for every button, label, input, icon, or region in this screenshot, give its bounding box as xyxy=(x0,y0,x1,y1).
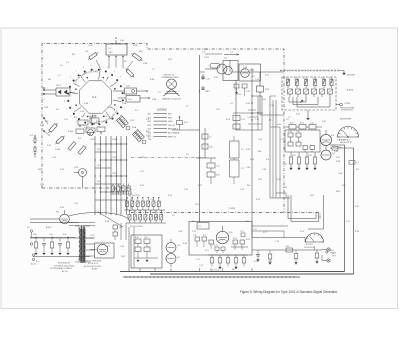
svg-text:R-73: R-73 xyxy=(214,245,218,247)
attenuator output terminal xyxy=(336,102,355,112)
buffer cathode parts xyxy=(234,84,247,96)
svg-text:S-2: S-2 xyxy=(36,261,39,263)
svg-text:C-7: C-7 xyxy=(152,69,155,71)
attenuator resistor bank row 1 xyxy=(285,77,333,88)
svg-text:9: 9 xyxy=(91,65,92,67)
svg-text:4: 4 xyxy=(64,92,65,94)
svg-text:C-71: C-71 xyxy=(196,259,200,261)
svg-text:P-2: P-2 xyxy=(356,163,359,165)
svg-text:R-42: R-42 xyxy=(300,123,304,125)
svg-text:J-3: J-3 xyxy=(286,119,289,121)
svg-text:C-33: C-33 xyxy=(241,119,245,121)
center column extra wires xyxy=(233,95,263,130)
svg-text:V-9: V-9 xyxy=(177,257,180,259)
left small bank row xyxy=(111,184,131,195)
trimmer C-3 right of switch (tilted) xyxy=(125,68,136,79)
svg-text:CPS INTERNAL CONNECT: CPS INTERNAL CONNECT xyxy=(50,267,73,270)
output amp bottom components xyxy=(208,255,248,272)
svg-text:R-6: R-6 xyxy=(56,109,59,111)
svg-text:6: 6 xyxy=(99,127,100,129)
modulation system note xyxy=(50,262,74,273)
svg-text:P-3: P-3 xyxy=(27,227,30,229)
svg-text:AL-770: AL-770 xyxy=(62,270,68,273)
svg-text:W-8: W-8 xyxy=(148,139,151,141)
svg-text:1: 1 xyxy=(126,100,127,102)
wiring legend table xyxy=(148,109,181,139)
svg-text:C-23: C-23 xyxy=(95,212,99,214)
wire drops from switch cluster to lower grid xyxy=(94,136,127,215)
connector from left block to ring xyxy=(70,92,75,93)
svg-text:C-63: C-63 xyxy=(120,246,124,248)
svg-text:P-6: P-6 xyxy=(186,154,189,156)
carrier level pot below attenuator xyxy=(288,110,309,120)
modulator note lines xyxy=(84,261,102,271)
svg-text:R-79: R-79 xyxy=(300,231,304,233)
svg-text:W-5: W-5 xyxy=(247,185,250,187)
svg-text:PUT: PUT xyxy=(333,255,336,257)
svg-text:R-47: R-47 xyxy=(336,157,340,159)
mod coupling components xyxy=(113,223,126,240)
svg-text:C-73: C-73 xyxy=(240,231,244,233)
transformer secondary stubs xyxy=(86,238,95,256)
capacitor C-1 top-left of switch (tilted) xyxy=(87,51,99,61)
left margin terminals xyxy=(27,227,33,245)
svg-text:AL-50: AL-50 xyxy=(31,263,36,266)
padder cluster right of switch xyxy=(113,86,150,103)
junction cluster mid column xyxy=(248,110,262,124)
svg-text:R-55: R-55 xyxy=(246,149,250,151)
audio oscillator tube V-6 xyxy=(30,210,69,224)
svg-text:R-11: R-11 xyxy=(97,149,101,151)
transformer T-1 core darkening xyxy=(81,226,84,262)
svg-text:R-63: R-63 xyxy=(121,256,125,258)
svg-text:TO MOD: TO MOD xyxy=(228,208,236,210)
svg-text:2: 2 xyxy=(124,108,125,110)
svg-text:BLK: BLK xyxy=(168,114,172,116)
attenuator box A-1 (dashed) xyxy=(282,77,336,110)
svg-text:R-17: R-17 xyxy=(198,185,202,187)
svg-text:C-78: C-78 xyxy=(275,241,279,243)
attenuator resistor bank row 2 xyxy=(287,89,332,97)
svg-text:IN: 500 OHM LEVEL: IN: 500 OHM LEVEL xyxy=(86,261,102,263)
svg-text:W-2: W-2 xyxy=(72,54,75,56)
bottom heater bus with ticks xyxy=(123,276,300,278)
tilted stack hatching bottom-right of switch xyxy=(117,117,142,140)
svg-text:C-17: C-17 xyxy=(140,171,144,173)
svg-text:C-13: C-13 xyxy=(52,157,56,159)
svg-text:P-10: P-10 xyxy=(355,206,359,208)
resistor R-4 lower-left (tilted) xyxy=(54,135,65,146)
svg-text:C-60: C-60 xyxy=(49,234,53,236)
svg-text:W-15: W-15 xyxy=(140,157,144,159)
output amplifier enclosure xyxy=(189,222,252,256)
svg-text:R-20: R-20 xyxy=(265,89,269,91)
svg-text:C-56: C-56 xyxy=(246,167,250,169)
connector lead from C-1 to ring xyxy=(96,60,101,70)
bank resistor hatching xyxy=(126,202,162,220)
audio network row xyxy=(30,234,76,255)
carrier level meter M-1 xyxy=(338,127,359,138)
svg-text:W-9: W-9 xyxy=(342,185,345,187)
svg-text:C-44: C-44 xyxy=(310,123,314,125)
svg-text:R-50 R-51 R-52: R-50 R-51 R-52 xyxy=(128,195,140,197)
svg-text:C-20: C-20 xyxy=(184,189,188,191)
svg-text:R-19: R-19 xyxy=(226,119,230,121)
svg-text:P-5: P-5 xyxy=(172,215,175,217)
diagonal wire from transformer to bank xyxy=(98,212,123,227)
svg-text:2: 2 xyxy=(66,108,67,110)
svg-text:C-39: C-39 xyxy=(240,189,244,191)
doubler block internals xyxy=(134,237,158,262)
bottom-left dense cluster around switch xyxy=(68,115,105,154)
svg-text:R-60: R-60 xyxy=(33,234,37,236)
svg-text:3: 3 xyxy=(120,115,121,117)
svg-text:C-70: C-70 xyxy=(193,235,197,237)
svg-text:4: 4 xyxy=(114,121,115,123)
output jack terminals xyxy=(322,248,336,262)
oscillator range resistor bank (two rows) xyxy=(124,197,166,223)
IF transformer stacked cans xyxy=(230,136,244,184)
svg-text:C-52: C-52 xyxy=(246,91,250,93)
svg-text:3: 3 xyxy=(114,71,115,73)
svg-text:BRN-SHLD: BRN-SHLD xyxy=(168,129,179,131)
right vertical bus pair xyxy=(330,145,354,274)
svg-text:R-74: R-74 xyxy=(246,239,250,241)
svg-text:T-3: T-3 xyxy=(241,149,243,151)
amplifier grid components xyxy=(288,131,301,146)
svg-text:R-23: R-23 xyxy=(277,124,281,126)
mid trunk wire x252 extension xyxy=(251,115,253,238)
svg-text:C-46: C-46 xyxy=(338,173,342,175)
L-10 block right of grid xyxy=(207,158,220,184)
left margin resistors on shield border xyxy=(30,135,36,158)
svg-text:C-31: C-31 xyxy=(255,79,259,81)
svg-text:USE NO.14: USE NO.14 xyxy=(164,74,175,76)
svg-text:GANGED S-1A,S-1B: GANGED S-1A,S-1B xyxy=(162,98,181,101)
svg-text:C-26: C-26 xyxy=(112,189,116,191)
B+ line extension to trunk xyxy=(188,129,200,131)
audio feedback loop wire xyxy=(69,212,129,219)
svg-text:R-71: R-71 xyxy=(205,250,209,252)
svg-text:C-54: C-54 xyxy=(258,139,262,141)
svg-text:C-79: C-79 xyxy=(268,261,272,263)
svg-text:R-22: R-22 xyxy=(262,99,266,101)
svg-text:L-9: L-9 xyxy=(247,117,250,119)
svg-text:R-56 R-57 R-58: R-56 R-57 R-58 xyxy=(130,226,142,228)
svg-text:C-38: C-38 xyxy=(262,169,266,171)
bottom-right switch cluster C-12 (tilted) xyxy=(116,116,151,144)
svg-text:C-2: C-2 xyxy=(230,52,233,54)
svg-text:R-76: R-76 xyxy=(254,261,258,263)
cathode return tie wires xyxy=(270,193,290,198)
svg-text:C-45: C-45 xyxy=(334,151,338,153)
svg-text:P-1: P-1 xyxy=(333,145,336,147)
svg-text:C-57: C-57 xyxy=(283,164,287,166)
svg-text:OSC: OSC xyxy=(108,52,113,54)
power transformer section lines top xyxy=(200,86,210,93)
svg-text:R-48: R-48 xyxy=(336,161,340,163)
svg-text:EXT: EXT xyxy=(331,250,334,252)
modulation transformer T-1 xyxy=(75,226,90,262)
output amp internals right xyxy=(231,238,248,250)
oscillator V-1 tube cluster top right xyxy=(200,52,285,223)
svg-text:STRANDED WIRE: STRANDED WIRE xyxy=(162,76,179,79)
svg-text:C-11: C-11 xyxy=(64,119,68,121)
svg-text:MODULATION: MODULATION xyxy=(58,262,71,265)
svg-text:AL 100% MOD LEVEL: AL 100% MOD LEVEL xyxy=(84,265,101,268)
svg-text:C-80: C-80 xyxy=(286,246,290,248)
svg-text:3: 3 xyxy=(64,100,65,102)
svg-text:R-27: R-27 xyxy=(277,179,281,181)
svg-text:R-65: R-65 xyxy=(135,237,139,239)
svg-text:C-24: C-24 xyxy=(112,157,116,159)
left dashed-border terminal dots xyxy=(43,130,50,136)
bus junction labels xyxy=(332,145,359,165)
svg-text:R-31: R-31 xyxy=(214,77,218,79)
svg-text:Z-1: Z-1 xyxy=(198,226,201,228)
output amp internals left xyxy=(193,235,214,249)
bottom bus emphasis xyxy=(120,272,354,275)
svg-text:4: 4 xyxy=(120,77,121,79)
bottom bus final emphasis xyxy=(120,272,354,278)
svg-text:L-10: L-10 xyxy=(216,166,219,168)
shield enclosure bottom edge xyxy=(42,188,131,213)
svg-text:C-65: C-65 xyxy=(144,237,148,239)
svg-text:W-12: W-12 xyxy=(168,59,172,61)
B+ feed cluster xyxy=(172,116,188,130)
output amplifier tube V-10 xyxy=(216,226,232,244)
svg-text:BATT: BATT xyxy=(206,90,210,93)
svg-text:SYSTEM 0-100% AT 400: SYSTEM 0-100% AT 400 xyxy=(54,264,74,267)
svg-text:R-16: R-16 xyxy=(168,195,172,197)
RF amplifier stage boxes xyxy=(285,123,322,130)
svg-text:P-4: P-4 xyxy=(356,169,359,171)
svg-text:C-32: C-32 xyxy=(237,94,241,96)
left margin jack AL-50 xyxy=(31,254,36,266)
switch wafer radial spokes xyxy=(69,71,121,123)
trimmer C-22 in grid xyxy=(84,127,94,136)
audio bottom rail xyxy=(30,223,95,257)
grid capacitor C-30 below oscillator xyxy=(201,74,210,81)
svg-text:V-5: V-5 xyxy=(332,153,335,155)
svg-text:J-5: J-5 xyxy=(192,221,195,223)
svg-text:C-30: C-30 xyxy=(206,79,210,81)
svg-text:R-26: R-26 xyxy=(216,175,220,177)
screen bypass pair xyxy=(303,146,315,153)
svg-text:P-708: P-708 xyxy=(204,57,209,59)
upper horizontal tie from shield to bank xyxy=(203,49,239,55)
ring area small labels pass 3 xyxy=(40,39,157,151)
plate choke resistor on bus xyxy=(257,72,270,115)
svg-text:R-61: R-61 xyxy=(63,234,67,236)
bottom horizontal bus lower xyxy=(150,273,354,275)
svg-text:C-27: C-27 xyxy=(216,109,220,111)
svg-text:R-25: R-25 xyxy=(250,159,254,161)
svg-text:V-8: V-8 xyxy=(177,245,180,247)
svg-text:5: 5 xyxy=(107,125,108,127)
svg-text:MULTIPLIER: MULTIPLIER xyxy=(340,119,352,121)
svg-text:MICROVOLTS: MICROVOLTS xyxy=(340,142,353,144)
svg-text:W-14: W-14 xyxy=(38,169,42,171)
modulator tube V-7 with box xyxy=(90,243,114,258)
svg-text:Figure 5. Wiring Diagram for: Figure 5. Wiring Diagram for Type 1001-A… xyxy=(240,290,337,294)
svg-text:V-4: V-4 xyxy=(331,135,334,137)
attenuator shield braid line with ticks xyxy=(280,69,340,71)
svg-text:8: 8 xyxy=(83,125,84,127)
external modulation terminals right margin xyxy=(326,250,335,255)
svg-text:V-7: V-7 xyxy=(107,246,110,248)
svg-text:P-9: P-9 xyxy=(266,159,269,161)
svg-text:W-6: W-6 xyxy=(246,221,249,223)
svg-text:R-24: R-24 xyxy=(184,122,188,124)
svg-text:R-40: R-40 xyxy=(322,121,326,123)
switch S-1 arc label top xyxy=(75,72,117,84)
svg-text:R-1: R-1 xyxy=(124,61,127,63)
svg-text:R-3: R-3 xyxy=(30,135,33,137)
svg-text:C-36: C-36 xyxy=(255,119,259,121)
wires below oscillator cluster xyxy=(233,72,276,198)
svg-text:C-10: C-10 xyxy=(80,111,84,113)
attenuator resistor hatching xyxy=(287,79,333,94)
svg-text:ALTER: ALTER xyxy=(92,268,98,271)
audio section second wire xyxy=(30,222,79,224)
microphone jack symbol J-1 xyxy=(167,79,177,89)
bank labels xyxy=(128,195,142,228)
svg-text:C-15: C-15 xyxy=(40,184,44,186)
mid dash-dot feed line xyxy=(131,157,205,159)
svg-text:T-2: T-2 xyxy=(158,92,161,94)
amplifier tube emphasis xyxy=(321,135,332,161)
svg-text:V-2: V-2 xyxy=(252,76,255,78)
attenuator wiper lines xyxy=(289,97,330,107)
svg-text:LEGEND: LEGEND xyxy=(157,109,167,112)
svg-text:C-6: C-6 xyxy=(146,119,149,121)
svg-text:WOUND 80 DB: WOUND 80 DB xyxy=(341,110,354,112)
svg-text:R-77: R-77 xyxy=(263,232,267,234)
svg-text:C-19: C-19 xyxy=(150,199,154,201)
svg-text:0-100% M-78: 0-100% M-78 xyxy=(304,247,314,249)
resistor R-2 top-right of switch (tilted) xyxy=(131,52,144,62)
svg-text:W-10: W-10 xyxy=(195,204,199,206)
extra scattered labels pass 2 xyxy=(38,67,359,271)
center column band extra verticals xyxy=(270,100,280,198)
svg-text:J-6: J-6 xyxy=(60,65,62,67)
svg-text:R-10: R-10 xyxy=(47,145,51,147)
svg-text:C-47: C-47 xyxy=(346,221,350,223)
rotary switch S-1 octagon wafer xyxy=(79,81,111,113)
bottom horizontal bus upper xyxy=(120,271,345,273)
upper tie line into attenuator xyxy=(260,96,284,115)
svg-text:RED: RED xyxy=(168,117,173,119)
svg-text:C-4: C-4 xyxy=(66,62,69,64)
svg-text:6: 6 xyxy=(126,92,127,94)
svg-text:V-6: V-6 xyxy=(56,212,59,214)
svg-text:R-15: R-15 xyxy=(140,185,144,187)
svg-text:W-4: W-4 xyxy=(258,151,261,153)
svg-text:1: 1 xyxy=(70,115,71,117)
svg-text:R-41: R-41 xyxy=(290,123,294,125)
wire under output meter xyxy=(305,246,322,250)
svg-text:9: 9 xyxy=(76,121,77,123)
svg-text:L-2: L-2 xyxy=(58,75,61,77)
svg-text:W-16: W-16 xyxy=(154,217,158,219)
svg-text:WHT-GT: WHT-GT xyxy=(168,136,177,138)
svg-text:J-702A: J-702A xyxy=(344,102,350,105)
svg-text:C-41: C-41 xyxy=(296,131,300,133)
svg-text:F-O M-2: F-O M-2 xyxy=(306,244,313,246)
svg-text:C-61: C-61 xyxy=(90,235,94,237)
svg-text:C-34: C-34 xyxy=(270,105,274,107)
svg-text:P-7: P-7 xyxy=(186,106,189,108)
svg-text:L-7: L-7 xyxy=(209,137,212,139)
doubler tube V-8 xyxy=(166,239,180,253)
coil L-1 box above switch xyxy=(106,44,127,55)
amp inter wires xyxy=(285,130,345,152)
svg-text:C-59: C-59 xyxy=(74,203,78,205)
svg-text:V-10: V-10 xyxy=(229,232,233,234)
svg-text:C-77: C-77 xyxy=(253,229,257,231)
svg-text:R-58: R-58 xyxy=(283,187,287,189)
cathode resistors with grounds xyxy=(289,152,316,170)
svg-text:R-21: R-21 xyxy=(265,75,269,77)
svg-text:TO RF: TO RF xyxy=(203,49,208,51)
svg-text:R-72: R-72 xyxy=(233,238,237,240)
svg-text:YEL-GT: YEL-GT xyxy=(168,125,176,127)
svg-text:C-74: C-74 xyxy=(199,265,203,267)
svg-text:C-35: C-35 xyxy=(209,147,213,149)
svg-text:GROUND: GROUND xyxy=(347,75,356,77)
svg-text:R-18: R-18 xyxy=(105,221,109,223)
svg-text:C-25: C-25 xyxy=(112,173,116,175)
svg-text:R-59: R-59 xyxy=(60,207,64,209)
svg-text:C-40: C-40 xyxy=(288,131,292,133)
svg-text:C-62: C-62 xyxy=(119,227,123,229)
svg-text:R-45: R-45 xyxy=(292,155,296,157)
ring terminal dots on border xyxy=(43,43,117,119)
output coupling capacitors xyxy=(252,246,319,264)
svg-text:R-70: R-70 xyxy=(203,235,207,237)
output amp input box xyxy=(197,223,209,230)
coupling line from shield to attenuator xyxy=(229,60,231,72)
shield partition dash-dot line to output box xyxy=(131,213,320,220)
svg-text:R-12: R-12 xyxy=(97,165,101,167)
output box to meter wires xyxy=(252,226,288,238)
small value labels in grid xyxy=(97,149,116,191)
svg-text:7: 7 xyxy=(76,71,77,73)
svg-text:W-3: W-3 xyxy=(48,79,51,81)
svg-text:R-5: R-5 xyxy=(135,110,138,112)
transformer T-1 dark core xyxy=(80,229,86,263)
svg-text:R-28: R-28 xyxy=(256,199,260,201)
connector leads from L-1 to ring contacts xyxy=(109,57,123,69)
doubler block enclosure xyxy=(131,235,162,268)
svg-text:W-17: W-17 xyxy=(146,131,150,133)
svg-text:R-49: R-49 xyxy=(355,231,359,233)
buffer stage tube V-2 box xyxy=(239,64,261,81)
RF amplifier tube V-5 xyxy=(321,150,335,160)
output box extra internals xyxy=(214,231,245,253)
svg-text:8: 8 xyxy=(83,67,84,69)
doubler tube V-9 xyxy=(166,254,180,268)
switch S-1 arc label bottom xyxy=(75,110,117,122)
svg-text:5: 5 xyxy=(66,84,67,86)
output meter M-2 xyxy=(304,233,324,249)
svg-text:W-7: W-7 xyxy=(232,269,235,271)
terminal block left of switch xyxy=(43,85,70,96)
svg-text:C-72: C-72 xyxy=(192,231,196,233)
switch contact tick labels xyxy=(64,65,128,130)
svg-text:T-4: T-4 xyxy=(241,168,243,170)
